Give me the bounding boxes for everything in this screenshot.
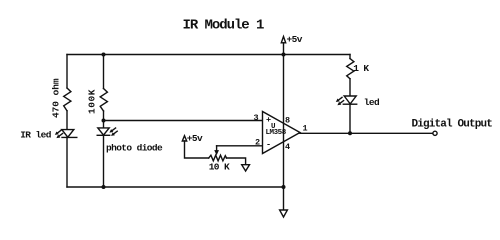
svg-text:led: led (364, 97, 380, 108)
svg-text:100K: 100K (87, 89, 98, 114)
wire V+ vertical through op-amp (283, 43, 285, 210)
junction V+ / top rail (282, 53, 286, 57)
junction op-amp ground / bottom rail (282, 185, 286, 189)
wire 100K to photo diode (103, 111, 105, 128)
photo diode D2 (97, 128, 117, 135)
wire 470 to IR led (66, 111, 68, 130)
svg-text:IR Module 1: IR Module 1 (183, 18, 265, 34)
IR led D1 (56, 130, 77, 138)
wire 1K to led (349, 79, 351, 96)
svg-text:4: 4 (285, 142, 290, 152)
svg-text:photo diode: photo diode (106, 143, 163, 154)
resistor 100K (87, 89, 108, 115)
svg-text:470 ohm: 470 ohm (51, 78, 62, 118)
wire 100K branch upper (103, 55, 105, 89)
svg-text:Digital Output: Digital Output (412, 118, 493, 130)
ground below op-amp (280, 210, 288, 217)
wire bottom rail (67, 186, 284, 188)
junction photo diode / pin3 tap (102, 119, 106, 123)
junction bottom rail / photo diode branch (102, 185, 106, 189)
led D3 (337, 96, 357, 105)
svg-text:3: 3 (254, 113, 259, 123)
svg-text:8: 8 (285, 116, 290, 126)
svg-text:-: - (266, 140, 271, 150)
power +5v at pot (182, 133, 203, 144)
resistor 1 K (347, 59, 370, 79)
svg-text:10 K: 10 K (209, 162, 230, 173)
wire led to output (349, 104, 351, 133)
wire photo diode to bottom rail (103, 135, 105, 187)
wire pin3 input (104, 120, 263, 122)
op-amp U1 LM358 (254, 112, 308, 154)
svg-text:1 K: 1 K (353, 63, 369, 74)
resistor 470 ohm (51, 78, 71, 118)
wire pin2 to pot wiper (217, 145, 262, 147)
svg-text:+5v: +5v (287, 34, 303, 45)
svg-text:1: 1 (303, 124, 308, 134)
wire pot to ground (227, 158, 246, 165)
power +5v at op-amp (281, 34, 302, 45)
wire IR led to bottom rail (66, 137, 68, 187)
junction led branch / output (348, 131, 352, 135)
wire op-amp output (300, 132, 433, 134)
terminal Digital Output (433, 131, 437, 135)
wire +5v to pot (185, 141, 209, 158)
svg-text:IR led: IR led (20, 129, 52, 140)
potentiometer 10 K (209, 146, 230, 173)
wire right branch upper (349, 55, 351, 59)
junction top of 100K (102, 53, 106, 57)
wire left branch upper (66, 55, 68, 89)
wire top rail (67, 54, 350, 56)
svg-text:+5v: +5v (187, 133, 203, 144)
ground at pot (242, 165, 250, 171)
